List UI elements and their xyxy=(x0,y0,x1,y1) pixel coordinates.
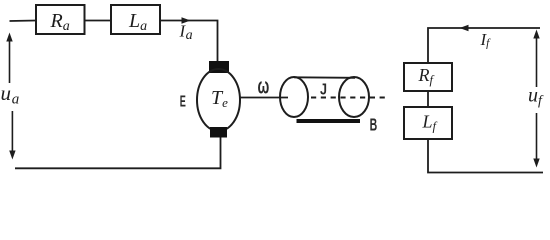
motor armature circle xyxy=(197,69,240,131)
wire La to motor top xyxy=(160,21,218,63)
rotor right ellipse xyxy=(339,77,369,117)
voltage arrow ua up xyxy=(6,33,12,84)
current arrow If xyxy=(460,25,469,32)
svg-text:J: J xyxy=(320,82,327,99)
resistor Ra xyxy=(36,5,85,34)
brush bottom xyxy=(210,127,227,138)
voltage arrow uf down xyxy=(533,113,539,168)
voltage arrow uf up xyxy=(533,30,539,88)
shaft wire motor to rotor xyxy=(240,97,288,99)
brush top xyxy=(209,61,229,73)
current arrow Ia xyxy=(182,17,191,24)
voltage arrow ua down xyxy=(9,111,15,160)
rotor left ellipse xyxy=(280,77,308,117)
inductor Lf xyxy=(404,107,452,139)
rotor top line xyxy=(294,76,355,79)
wire armature top left xyxy=(10,20,37,23)
wire Ra to La xyxy=(85,20,112,22)
svg-text:B: B xyxy=(370,115,378,135)
shaft axis dashed xyxy=(311,97,389,99)
svg-text:ω: ω xyxy=(258,74,270,99)
resistor Rf xyxy=(404,63,452,91)
inductor La xyxy=(111,5,160,34)
wire field bottom xyxy=(428,139,543,173)
wire motor bottom to ua xyxy=(15,138,221,169)
wire Rf to Lf xyxy=(427,91,429,107)
wire field top xyxy=(428,28,540,63)
friction bar B xyxy=(297,119,361,123)
svg-text:E: E xyxy=(180,94,186,111)
